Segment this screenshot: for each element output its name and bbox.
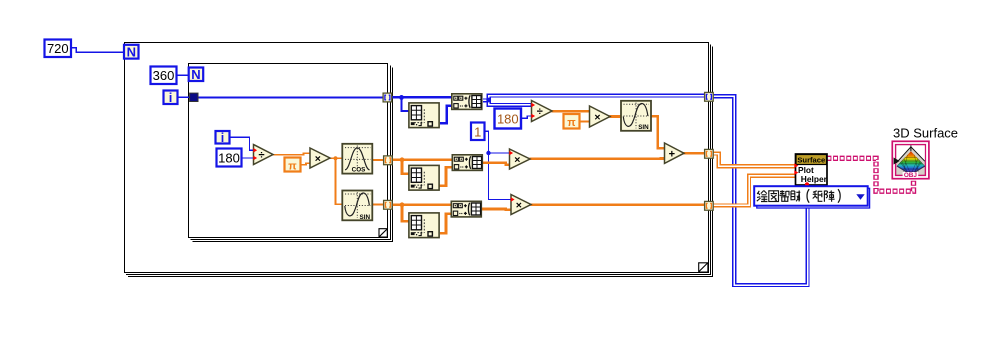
- svg-text:×: ×: [516, 200, 522, 212]
- svg-text:π: π: [567, 117, 576, 129]
- svg-text:180: 180: [218, 150, 240, 165]
- svg-text:N: N: [127, 45, 136, 60]
- svg-text:SIN: SIN: [360, 214, 371, 221]
- svg-text:COS: COS: [352, 167, 366, 174]
- svg-text:3D Surface: 3D Surface: [893, 126, 958, 141]
- svg-text:×: ×: [594, 112, 600, 124]
- svg-text:180: 180: [497, 112, 519, 127]
- svg-text:+: +: [669, 148, 675, 160]
- svg-text:i: i: [221, 131, 224, 145]
- svg-text:×: ×: [514, 154, 520, 166]
- svg-text:π: π: [288, 160, 297, 172]
- svg-text:OBJ: OBJ: [904, 172, 918, 179]
- svg-text:÷: ÷: [258, 150, 264, 162]
- svg-text:÷: ÷: [537, 106, 543, 118]
- svg-text:N: N: [191, 67, 200, 82]
- svg-text:×: ×: [315, 153, 321, 165]
- svg-text:720: 720: [47, 41, 69, 56]
- svg-text:SIN: SIN: [638, 124, 649, 131]
- svg-text:360: 360: [153, 68, 175, 83]
- svg-text:i: i: [169, 90, 173, 105]
- svg-text:Surface: Surface: [797, 156, 825, 165]
- svg-text:Helper: Helper: [801, 174, 828, 184]
- svg-text:1: 1: [474, 124, 481, 139]
